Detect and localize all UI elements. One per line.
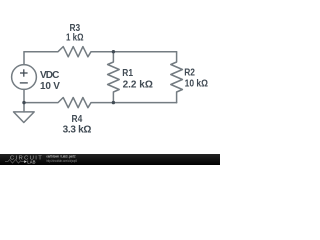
svg-text:LAB: LAB (27, 159, 36, 164)
svg-text:R4: R4 (72, 113, 84, 124)
svg-text:R1: R1 (122, 67, 133, 78)
svg-text:VDC: VDC (40, 70, 59, 81)
svg-text:http://circuitlab.com/c4rjzqv5: http://circuitlab.com/c4rjzqv5 (46, 159, 77, 163)
svg-text:earthtown / Lab3_part2: earthtown / Lab3_part2 (46, 154, 75, 158)
svg-text:3.3 kΩ: 3.3 kΩ (63, 125, 92, 136)
svg-text:R2: R2 (184, 67, 195, 78)
svg-text:10 kΩ: 10 kΩ (185, 78, 208, 89)
svg-text:1 kΩ: 1 kΩ (66, 32, 84, 43)
svg-text:2.2 kΩ: 2.2 kΩ (123, 79, 153, 90)
svg-text:10 V: 10 V (40, 81, 60, 92)
